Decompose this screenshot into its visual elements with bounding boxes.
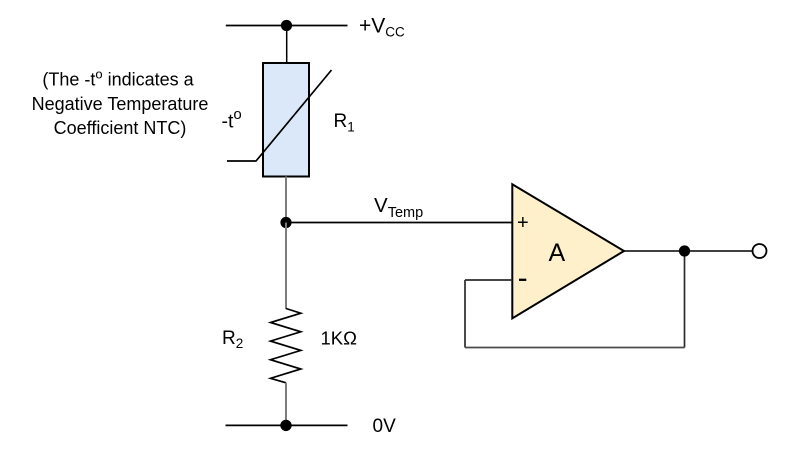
wire feedback bottom horizontal [465,347,685,349]
wire Vcc to R1 top [286,26,288,65]
node junction top rail [281,20,292,31]
wire top rail +Vcc [226,25,348,27]
svg-text:A: A [549,239,566,267]
wire R2 bottom to ground rail [285,383,287,426]
svg-text:0V: 0V [373,416,397,437]
annotation text block [32,66,209,138]
thermistor diagonal stroke [227,70,332,161]
wire R1 bottom to node [285,177,287,223]
wire node to R2 top [285,223,287,310]
svg-text:(The -to indicates a: (The -to indicates a [42,66,194,90]
svg-text:R2: R2 [222,328,243,351]
wire feedback left vertical [464,280,466,348]
wire op-amp inverting input [465,279,512,281]
node junction bottom rail [280,420,291,431]
svg-text:VTemp: VTemp [374,194,423,221]
svg-text:+: + [517,212,529,234]
svg-text:Coefficient NTC): Coefficient NTC) [54,118,187,138]
svg-text:1KΩ: 1KΩ [321,328,358,349]
wire feedback right vertical [684,251,686,348]
svg-text:-to: -to [222,106,242,133]
wire node to op-amp + input [286,222,512,224]
resistor R1 thermistor body [263,63,309,177]
pin label - (inverting) [519,279,526,281]
wire op-amp output [624,250,753,252]
svg-text:Negative Temperature: Negative Temperature [32,94,209,114]
op-amp U1 body [512,184,624,318]
node junction Vtemp [280,217,291,228]
wire bottom rail 0V [226,424,348,426]
node junction output [679,245,690,256]
terminal output circle [753,244,767,258]
svg-text:+VCC: +VCC [359,15,405,40]
resistor R2 zigzag [271,309,301,383]
svg-text:R1: R1 [334,111,355,135]
